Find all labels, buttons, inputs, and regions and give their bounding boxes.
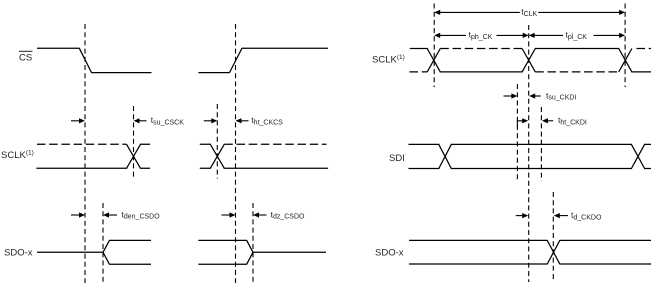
SCLK right: lead-in bottom dashed — [410, 71, 428, 73]
SDI bus valid segment — [451, 144, 631, 168]
SCLK left: group2 low solid — [224, 167, 327, 169]
svg-text:SDO-x: SDO-x — [375, 248, 404, 259]
node: dashed guide line at SCLK edge 3 (x=625.1) — [624, 4, 626, 88]
SDO-x right waveform — [409, 240, 651, 264]
SCLK left: stubs after X1 — [141, 144, 150, 168]
arrow t_d_CKDO right — [554, 213, 568, 218]
arrow t_den_CSDO left — [71, 212, 85, 217]
arrow t_su_CSCK right — [134, 118, 147, 123]
SCLK right: lead-in top solid — [410, 48, 427, 50]
node: dashed guide line SDO change (x=553.3) — [552, 192, 554, 282]
arrow t_ht_CKDI left (elbow) — [517, 118, 528, 127]
SCLK right: tail top dashed — [637, 48, 651, 50]
SCLK left: group1 high dashed — [37, 143, 127, 145]
SCLK right: seg1 top dashed — [440, 48, 522, 50]
SCLK left: X crossing 1 — [127, 144, 141, 168]
SCLK right: seg2 bottom dashed — [535, 71, 618, 73]
SCLK left: group1 low solid — [37, 167, 127, 169]
arrow t_ht_CKDI right — [542, 118, 553, 123]
SCLK left: group2 high dashed — [224, 143, 326, 145]
SDI tail stubs — [645, 144, 651, 168]
svg-text:CS: CS — [19, 53, 32, 64]
arrow t_ht_CKCS left — [204, 118, 218, 123]
node: dashed guide line at SCLK first edge (x=133.5) — [133, 106, 135, 178]
SCLK left: stubs before X2 — [200, 144, 210, 168]
SCLK right: X crossing 1 — [427, 49, 440, 72]
SCLK right: tail bottom solid — [632, 71, 651, 73]
node: dashed guide line at CS rising edge (x=235.5) — [235, 24, 237, 283]
arrow t_d_CKDO left — [516, 213, 528, 218]
svg-text:SDO-x: SDO-x — [4, 248, 33, 259]
SDI X crossing 1 — [439, 144, 452, 168]
SCLK right: seg2 top solid — [535, 48, 618, 50]
node: dashed guide line at CS falling edge (x=85) — [84, 24, 86, 283]
SDO-x left waveform group1 (tri-state to driven) — [37, 240, 151, 264]
arrow t_dz_CSDO right — [253, 212, 267, 217]
SDO-x left waveform group2 (driven to tri-state) — [198, 240, 326, 264]
arrow t_su_CSCK left — [71, 118, 85, 123]
node: dashed guide line at SCLK edge 1 (x=434.2) — [433, 4, 435, 88]
SCLK right: X crossing 2 — [522, 49, 535, 72]
arrow t_ht_CKCS right — [236, 118, 249, 123]
dimension t_ph_CK arrow — [434, 33, 529, 38]
node: dashed guide line SDI hold (x=541.4) — [540, 107, 542, 181]
SDI X crossing 2 — [631, 144, 644, 168]
SDI waveform lead-in — [409, 144, 439, 168]
dimension t_pl_CK arrow — [529, 33, 625, 38]
SCLK right: X crossing 3 — [619, 49, 632, 72]
SCLK right: seg1 bottom solid — [440, 71, 522, 73]
arrow t_su_CKDI left — [504, 93, 518, 98]
node: dashed guide line at SDO enable (x=103) — [102, 203, 104, 283]
CS waveform — [37, 48, 328, 72]
node: dashed guide line SDI valid (x=517.4) — [516, 84, 518, 181]
SCLK left: X crossing 2 — [210, 144, 224, 168]
dimension t_CLK arrow — [434, 10, 625, 15]
arrow t_dz_CSDO left — [222, 212, 236, 217]
arrow t_den_CSDO right — [103, 212, 117, 217]
node: dashed guide line at SCLK last edge (x=217.3) — [216, 104, 218, 179]
node: dashed guide line at SCLK edge 2 (x=528.7) — [528, 25, 530, 282]
label CS (overlined) — [19, 51, 33, 63]
svg-text:SDI: SDI — [389, 153, 405, 164]
arrow t_su_CKDI right — [529, 93, 541, 98]
node: dashed guide line at SDO disable (x=253) — [252, 203, 254, 283]
